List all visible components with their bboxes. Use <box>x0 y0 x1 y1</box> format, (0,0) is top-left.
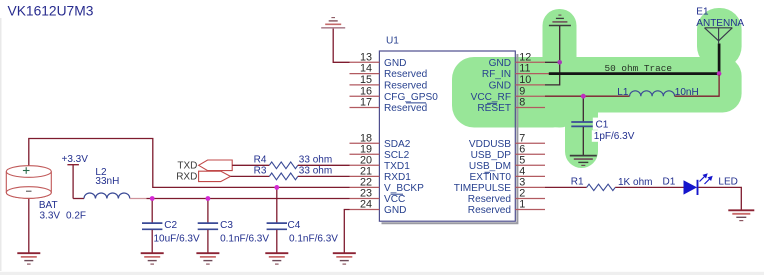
ground (C3) <box>196 253 219 264</box>
svg-text:RXD1: RXD1 <box>384 172 411 183</box>
wire R1 to D1 <box>615 186 683 188</box>
svg-text:C3: C3 <box>220 220 233 231</box>
green RF highlight region <box>452 8 742 168</box>
svg-text:33nH: 33nH <box>95 176 119 187</box>
ground (LED) <box>728 210 754 220</box>
ground (C2) <box>141 253 164 264</box>
ground (C4) <box>265 253 288 264</box>
svg-text:0.1nF/6.3V: 0.1nF/6.3V <box>289 233 338 244</box>
bottom page edge <box>0 272 764 275</box>
wire VCC bus to pin 23 <box>130 198 147 200</box>
wire GND vertical pin12/pin10 <box>545 26 560 85</box>
wire TIMEPULSE pin3 to R1 <box>545 186 587 188</box>
svg-text:U1: U1 <box>386 36 399 47</box>
svg-text:TXD1: TXD1 <box>384 161 410 172</box>
antenna feed thick vertical <box>718 44 721 75</box>
pin numbers left <box>360 51 372 210</box>
battery BAT top lead wire <box>29 139 350 188</box>
ground (pin 24) <box>333 253 356 264</box>
svg-text:16: 16 <box>360 85 372 97</box>
inductor L2 <box>73 193 130 199</box>
svg-text:Reserved: Reserved <box>384 69 427 80</box>
svg-text:R3: R3 <box>254 166 267 177</box>
svg-text:1pF/6.3V: 1pF/6.3V <box>594 131 635 142</box>
svg-text:10nH: 10nH <box>675 87 699 98</box>
svg-text:1: 1 <box>519 199 525 211</box>
svg-text:R1: R1 <box>571 176 584 187</box>
wire RXD to R3 <box>231 175 270 177</box>
svg-text:VCC: VCC <box>384 194 405 205</box>
wire D1 to ground <box>698 187 741 210</box>
port RXD <box>199 171 231 181</box>
antenna E1 symbol <box>705 28 733 44</box>
pin numbers right <box>519 51 531 210</box>
svg-text:GND: GND <box>384 205 406 216</box>
svg-text:L1: L1 <box>617 87 629 98</box>
capacitor C3 <box>198 199 218 254</box>
resistor R3 <box>269 173 298 180</box>
port TXD <box>199 160 233 171</box>
svg-text:TXD: TXD <box>177 161 197 172</box>
svg-text:C2: C2 <box>164 220 177 231</box>
svg-text:VK1612U7M3: VK1612U7M3 <box>8 3 94 18</box>
svg-text:CFG_GPS0: CFG_GPS0 <box>384 92 438 103</box>
svg-text:33 ohm: 33 ohm <box>299 155 332 166</box>
svg-text:LED: LED <box>718 176 737 187</box>
power +3.3V symbol <box>67 165 79 199</box>
svg-text:14: 14 <box>360 63 372 75</box>
inductor L1 <box>630 91 675 96</box>
pin names right <box>454 58 512 216</box>
svg-text:EXTINT0: EXTINT0 <box>469 172 511 183</box>
ground (top, above pin 13, inverted) <box>321 18 345 28</box>
svg-text:RF_IN: RF_IN <box>482 69 511 80</box>
svg-text:SCL2: SCL2 <box>384 150 410 161</box>
svg-text:10: 10 <box>519 74 531 86</box>
svg-text:RXD: RXD <box>176 172 197 183</box>
wire R3 to pin 21 <box>298 175 350 177</box>
svg-text:Reserved: Reserved <box>468 205 511 216</box>
svg-text:SDA2: SDA2 <box>384 139 411 150</box>
svg-text:BAT: BAT <box>39 200 58 211</box>
node junction pin12/GND <box>557 60 562 65</box>
wire L1 to antenna node <box>675 75 720 96</box>
battery BAT bottom lead wire <box>28 198 30 254</box>
svg-text:USB_DP: USB_DP <box>471 150 512 161</box>
svg-text:11: 11 <box>519 63 530 75</box>
svg-text:ANTENNA: ANTENNA <box>696 18 744 29</box>
wire VCC_RF pin9 to L1 <box>545 95 630 97</box>
svg-text:TIMEPULSE: TIMEPULSE <box>454 183 511 194</box>
node junction C4 on V_BCKP wire <box>274 185 279 190</box>
svg-text:12: 12 <box>519 51 531 63</box>
svg-text:D1: D1 <box>663 176 676 187</box>
IC U1 (GPS module) border with shadow <box>379 51 517 223</box>
pin names left <box>384 58 438 216</box>
svg-text:1K ohm: 1K ohm <box>618 177 652 188</box>
svg-text:Reserved: Reserved <box>468 194 511 205</box>
svg-text:VCC_RF: VCC_RF <box>471 92 511 103</box>
node junction C2 <box>150 196 155 201</box>
svg-text:V_BCKP: V_BCKP <box>384 183 424 194</box>
capacitor C1 <box>571 96 595 155</box>
svg-text:0.1nF/6.3V: 0.1nF/6.3V <box>220 233 269 244</box>
capacitor C4 <box>267 187 287 253</box>
svg-text:13: 13 <box>360 51 372 63</box>
svg-text:USB_DM: USB_DM <box>469 161 511 172</box>
svg-text:C1: C1 <box>596 119 609 130</box>
node junction trace corner <box>717 71 722 76</box>
ground (battery) <box>17 253 40 264</box>
ground (green area top, inverted) <box>549 15 571 25</box>
battery BAT symbol <box>6 166 51 199</box>
svg-text:50 ohm Trace: 50 ohm Trace <box>605 63 673 74</box>
IC U1 body fill <box>379 51 515 221</box>
svg-text:RESET: RESET <box>477 103 511 114</box>
svg-text:E1: E1 <box>696 7 709 18</box>
svg-text:33 ohm: 33 ohm <box>299 166 332 177</box>
svg-text:GND: GND <box>489 81 511 92</box>
label overbars (as in original) <box>391 103 498 194</box>
node junction C1 <box>581 94 586 99</box>
svg-text:8: 8 <box>519 97 525 109</box>
svg-text:9: 9 <box>519 85 525 97</box>
svg-text:15: 15 <box>360 74 372 86</box>
pin stubs left lower (18-24) <box>350 143 380 209</box>
capacitor C2 <box>142 199 162 254</box>
LED D1 <box>684 174 712 195</box>
left page edge <box>0 18 2 271</box>
svg-text:3.3V: 3.3V <box>40 211 61 222</box>
svg-text:R4: R4 <box>254 155 267 166</box>
wire pin13 to top ground <box>333 28 349 62</box>
wire R4 to pin 20 <box>298 164 350 166</box>
svg-text:24: 24 <box>360 199 372 211</box>
pin stubs right lower (7-1) <box>515 143 545 209</box>
svg-text:Reserved: Reserved <box>384 81 427 92</box>
wire TXD to R4 <box>232 164 269 166</box>
svg-text:17: 17 <box>360 97 372 109</box>
svg-text:10uF/6.3V: 10uF/6.3V <box>154 233 200 244</box>
resistor R4 <box>269 162 298 169</box>
svg-text:0.2F: 0.2F <box>66 211 86 222</box>
50 ohm trace (thick) <box>549 72 719 75</box>
wire pin 24 to ground <box>344 210 349 254</box>
svg-text:+3.3V: +3.3V <box>62 154 89 165</box>
node junction C3 <box>206 196 211 201</box>
resistor R1 <box>587 184 616 190</box>
svg-text:C4: C4 <box>288 220 301 231</box>
ground (C1) <box>570 156 597 166</box>
svg-text:GND: GND <box>384 58 406 69</box>
wire pin 12 to GND vertical <box>545 61 560 63</box>
pin stubs left upper (13-17) <box>350 62 380 107</box>
pin stubs right upper (12-8) <box>515 62 549 107</box>
svg-text:VDDUSB: VDDUSB <box>469 139 511 150</box>
svg-text:Reserved: Reserved <box>384 103 427 114</box>
svg-text:GND: GND <box>489 58 511 69</box>
